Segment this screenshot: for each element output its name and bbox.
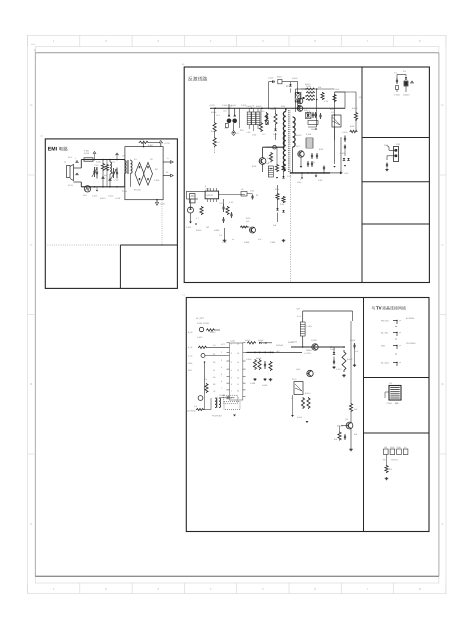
svg-text:R-7: R-7 [263, 133, 266, 136]
svg-text:PS1/PC817: PS1/PC817 [212, 415, 222, 418]
svg-text:TV: TV [376, 306, 382, 311]
svg-text:ZD2: ZD2 [240, 129, 244, 132]
svg-text:A: A [30, 522, 32, 526]
svg-text:4: 4 [210, 39, 212, 43]
svg-text:14: 14 [237, 361, 239, 364]
svg-text:反激线路: 反激线路 [188, 76, 207, 83]
svg-text:7S: 7S [213, 390, 216, 393]
svg-text:1K: 1K [291, 397, 294, 400]
svg-text:L-27: L-27 [268, 161, 272, 164]
svg-text:L-001: L-001 [307, 325, 313, 328]
svg-text:C-021: C-021 [186, 226, 191, 229]
svg-text:AC-L: AC-L [68, 156, 73, 159]
svg-text:GND: GND [397, 446, 402, 449]
svg-text:BL_ADJ: BL_ADJ [381, 362, 389, 365]
svg-text:3R: 3R [213, 361, 216, 364]
svg-text:C-018: C-018 [154, 179, 159, 182]
svg-text:16: 16 [237, 343, 239, 346]
svg-text:R-2: R-2 [217, 141, 221, 144]
svg-text:L-05: L-05 [247, 131, 251, 134]
svg-text:C-408: C-408 [250, 382, 255, 385]
svg-text:R-017: R-017 [330, 108, 335, 111]
svg-text:R-23: R-23 [246, 217, 250, 220]
svg-text:1N4148: 1N4148 [276, 344, 283, 347]
svg-text:BL_ON: BL_ON [337, 425, 344, 428]
svg-text:1: 1 [53, 39, 55, 43]
svg-text:13: 13 [237, 369, 239, 372]
svg-text:R-430: R-430 [210, 331, 215, 334]
svg-text:C-22: C-22 [229, 201, 233, 204]
svg-text:8: 8 [419, 587, 421, 591]
svg-text:R-4: R-4 [204, 378, 208, 381]
svg-text:D-031 R-033: D-031 R-033 [197, 322, 210, 325]
svg-text:-170V: -170V [160, 203, 166, 206]
svg-text:N+: N+ [166, 171, 169, 174]
svg-text:(+12V): (+12V) [305, 352, 312, 355]
svg-text:D-8: D-8 [273, 224, 276, 227]
svg-text:R-013: R-013 [305, 83, 310, 86]
svg-text:D-011: D-011 [270, 108, 275, 111]
svg-text:0.1u: 0.1u [112, 161, 116, 164]
svg-text:6: 6 [314, 39, 316, 43]
svg-text:电路: 电路 [59, 147, 69, 152]
svg-text:R-5: R-5 [354, 433, 357, 436]
svg-text:1M: 1M [104, 174, 107, 177]
svg-text:R-409: R-409 [262, 384, 267, 387]
svg-text:X2: X2 [241, 188, 243, 191]
svg-text:FUSE: FUSE [84, 152, 90, 155]
svg-text:R-414: R-414 [305, 392, 311, 395]
svg-text:R-28: R-28 [350, 125, 354, 128]
svg-text:GND: GND [390, 446, 395, 449]
svg-text:D-2: D-2 [224, 110, 227, 113]
svg-text:4: 4 [221, 366, 223, 369]
svg-text:C-31: C-31 [311, 161, 315, 164]
svg-text:2: 2 [105, 587, 107, 591]
svg-text:1N: 1N [213, 344, 216, 347]
svg-text:5V-PWM: 5V-PWM [406, 317, 414, 320]
svg-text:Z1: Z1 [237, 132, 239, 135]
svg-text:+12V: +12V [296, 308, 301, 311]
svg-text:R-009: R-009 [256, 105, 261, 108]
svg-text:B: B [30, 382, 32, 386]
svg-text:47K: 47K [258, 238, 262, 241]
svg-text:与: 与 [372, 306, 376, 311]
svg-text:AC_DET: AC_DET [196, 317, 204, 320]
svg-text:0.22u: 0.22u [96, 161, 101, 164]
svg-text:5D: 5D [213, 376, 216, 379]
svg-text:C-010: C-010 [259, 110, 264, 113]
svg-text:CX2: CX2 [115, 179, 120, 182]
svg-text:U-401: U-401 [230, 340, 235, 343]
svg-text:R-1: R-1 [389, 468, 392, 471]
svg-text:R-407: R-407 [288, 341, 293, 344]
svg-text:Z-016: Z-016 [306, 133, 311, 136]
svg-text:1: 1 [231, 343, 232, 346]
svg-text:S8050: S8050 [311, 128, 317, 131]
svg-text:1n: 1n [232, 238, 234, 241]
svg-text:D: D [30, 103, 33, 107]
svg-text:RS-205: RS-205 [134, 189, 141, 192]
svg-text:22: 22 [256, 194, 258, 197]
svg-text:C: C [30, 243, 33, 247]
svg-text:R-412: R-412 [347, 358, 352, 361]
svg-text:R-017: R-017 [277, 76, 282, 79]
svg-text:+5V+5V: +5V+5V [391, 459, 399, 462]
svg-text:R-028: R-028 [244, 241, 249, 244]
svg-text:COMP: COMP [219, 394, 226, 397]
svg-text:Q-3: Q-3 [296, 145, 300, 148]
svg-text:LF1: LF1 [122, 155, 126, 158]
svg-text:+5V: +5V [383, 459, 387, 462]
svg-text:1: 1 [53, 587, 55, 591]
svg-text:C-016: C-016 [268, 77, 273, 80]
svg-text:XXXX: XXXX [31, 43, 36, 46]
svg-text:L-015: L-015 [115, 197, 120, 200]
svg-text:C-30: C-30 [318, 179, 322, 182]
svg-text:C-413: C-413 [336, 368, 341, 371]
svg-text:Q-012: Q-012 [295, 94, 300, 97]
svg-text:SW: SW [384, 144, 387, 147]
svg-text:C-2: C-2 [219, 234, 222, 237]
svg-text:1: 1 [35, 56, 37, 59]
svg-text:R-018: R-018 [352, 107, 357, 110]
svg-text:104: 104 [318, 86, 322, 89]
svg-text:A1: A1 [41, 135, 44, 138]
svg-text:0: 0 [34, 49, 36, 53]
svg-text:7: 7 [367, 587, 369, 591]
svg-text:7: 7 [367, 39, 369, 43]
svg-text:5: 5 [262, 39, 264, 43]
svg-text:L-06: L-06 [252, 134, 256, 137]
svg-text:A: A [441, 522, 443, 526]
svg-text:C-1: C-1 [394, 72, 398, 75]
svg-text:15: 15 [237, 352, 239, 355]
svg-text:Q-41: Q-41 [296, 368, 300, 371]
svg-text:D-404: D-404 [258, 339, 264, 342]
svg-text:R-026: R-026 [214, 229, 219, 232]
svg-text:P: P [400, 362, 402, 365]
svg-text:L+: L+ [167, 157, 170, 160]
svg-text:4.7u: 4.7u [297, 315, 301, 318]
svg-text:R-24: R-24 [275, 188, 280, 191]
svg-text:C-003: C-003 [394, 94, 400, 97]
svg-text:C1: C1 [183, 294, 186, 297]
svg-text:11: 11 [237, 383, 239, 386]
svg-text:D-29: D-29 [273, 133, 277, 136]
svg-text:CX1: CX1 [95, 164, 100, 167]
svg-text:D-411: D-411 [330, 348, 335, 351]
svg-text:R-406: R-406 [256, 357, 261, 360]
svg-text:PW_ON: PW_ON [381, 320, 389, 323]
svg-text:6: 6 [221, 380, 222, 383]
svg-text:C-012: C-012 [92, 195, 97, 198]
svg-text:Q-402: Q-402 [311, 339, 318, 342]
svg-text:RS: RS [155, 168, 158, 171]
svg-text:103: 103 [206, 226, 209, 229]
svg-text:AC-N: AC-N [68, 184, 73, 187]
svg-text:2: 2 [105, 39, 107, 43]
svg-text:10K: 10K [354, 408, 358, 411]
svg-text:C-006: C-006 [222, 104, 227, 107]
svg-text:P: P [400, 320, 402, 323]
svg-text:6: 6 [314, 587, 316, 591]
svg-text:10: 10 [237, 390, 239, 393]
svg-text:VCC: VCC [221, 343, 226, 346]
svg-text:4: 4 [210, 587, 212, 591]
svg-text:C-019: C-019 [342, 131, 347, 134]
svg-text:4F: 4F [213, 369, 216, 372]
svg-text:R-005: R-005 [211, 130, 216, 133]
svg-text:R-025: R-025 [196, 229, 201, 232]
svg-text:JP1: JP1 [389, 382, 392, 385]
svg-text:PW: PW [226, 398, 229, 401]
svg-text:2: 2 [231, 352, 232, 355]
svg-text:D1: D1 [134, 158, 137, 161]
svg-text:C: C [441, 243, 444, 247]
svg-text:B_IN: B_IN [188, 331, 193, 334]
svg-text:R-015: R-015 [296, 134, 301, 137]
svg-text:U-02: U-02 [335, 88, 339, 91]
svg-text:C-008: C-008 [246, 105, 251, 108]
svg-text:R-004: R-004 [211, 111, 217, 114]
svg-text:5: 5 [231, 377, 232, 380]
svg-text:3: 3 [231, 361, 232, 364]
svg-text:6: 6 [231, 383, 232, 386]
svg-text:5: 5 [221, 373, 222, 376]
svg-text:D-020: D-020 [340, 152, 345, 155]
svg-text:PC-1: PC-1 [292, 378, 296, 381]
svg-text:DIM: DIM [381, 345, 385, 348]
svg-text:S8550: S8550 [306, 349, 312, 352]
svg-text:5: 5 [262, 587, 264, 591]
svg-text:8: 8 [419, 39, 421, 43]
svg-text:C-4: C-4 [355, 350, 359, 353]
svg-text:470u: 470u [297, 181, 301, 184]
svg-text:R-002: R-002 [139, 138, 145, 141]
svg-text:C-21: C-21 [219, 202, 223, 205]
svg-text:GND: GND [188, 362, 193, 365]
svg-text:C-405: C-405 [246, 358, 251, 361]
svg-text:D-25: D-25 [280, 203, 284, 206]
svg-text:12V-PWM: 12V-PWM [187, 410, 196, 413]
svg-text:9: 9 [238, 397, 239, 400]
svg-text:+170V: +170V [164, 142, 171, 145]
svg-text:EE25: EE25 [286, 85, 291, 88]
svg-text:3: 3 [157, 587, 159, 591]
svg-text:B1: B1 [182, 63, 185, 66]
svg-text:4: 4 [231, 369, 232, 372]
svg-text:5V: 5V [404, 446, 407, 449]
svg-text:D2: D2 [150, 158, 153, 161]
svg-text:R-32: R-32 [319, 148, 323, 151]
svg-text:R-403: R-403 [245, 339, 250, 342]
svg-text:D-018: D-018 [292, 77, 297, 80]
svg-text:7: 7 [221, 387, 222, 390]
svg-text:C-01: C-01 [250, 190, 254, 193]
svg-text:T-001: T-001 [281, 105, 286, 108]
svg-text:6G: 6G [213, 383, 216, 386]
svg-text:C-029: C-029 [270, 241, 275, 244]
svg-text:8: 8 [205, 185, 206, 188]
svg-text:C-2: C-2 [225, 127, 228, 130]
svg-text:22K: 22K [359, 96, 363, 99]
svg-text:W2: W2 [293, 122, 296, 125]
svg-text:R-1: R-1 [217, 114, 221, 117]
svg-text:EMI: EMI [48, 147, 58, 153]
svg-text:CN2: CN2 [396, 143, 401, 146]
svg-text:R-013: R-013 [100, 197, 105, 200]
svg-text:D-1: D-1 [403, 70, 407, 73]
svg-text:T2: T2 [252, 105, 254, 108]
svg-text:D: D [441, 103, 444, 107]
svg-text:12: 12 [237, 377, 239, 380]
svg-text:C-4: C-4 [194, 405, 198, 408]
svg-text:12V-PWM: 12V-PWM [406, 342, 416, 345]
svg-text:4.7K: 4.7K [324, 100, 329, 103]
svg-text:C-014: C-014 [307, 107, 313, 110]
svg-text:V_IN: V_IN [188, 355, 193, 358]
svg-text:4.7: 4.7 [196, 217, 199, 220]
svg-text:T-000: T-000 [122, 190, 127, 193]
svg-text:12V: 12V [384, 446, 388, 449]
svg-text:R-5: R-5 [334, 438, 337, 441]
svg-text:3: 3 [221, 359, 222, 362]
svg-text:1N4007: 1N4007 [403, 94, 410, 97]
svg-text:NCP12: NCP12 [207, 194, 213, 197]
svg-text:+170V: +170V [209, 104, 216, 107]
svg-text:K_IN: K_IN [188, 346, 193, 349]
svg-text:470u: 470u [228, 105, 232, 108]
svg-text:液晶连接网络: 液晶连接网络 [382, 306, 406, 311]
svg-text:J1: J1 [64, 161, 67, 164]
svg-text:ADJ: ADJ [188, 369, 192, 372]
svg-text:R-415: R-415 [297, 416, 302, 419]
svg-text:2: 2 [221, 351, 222, 354]
svg-text:R-26: R-26 [252, 165, 256, 168]
svg-text:C-032: C-032 [197, 336, 202, 339]
svg-text:B: B [441, 382, 443, 386]
svg-text:Q-2: Q-2 [246, 220, 249, 223]
svg-text:输出: 输出 [395, 402, 399, 405]
svg-text:L: L [75, 157, 76, 160]
svg-text:+12V: +12V [344, 172, 349, 175]
svg-text:C-014: C-014 [108, 195, 114, 198]
svg-text:6.8M: 6.8M [148, 144, 153, 147]
svg-text:Q-4: Q-4 [345, 418, 349, 421]
svg-text:C-30: C-30 [287, 175, 291, 178]
svg-text:CON5: CON5 [387, 402, 392, 405]
svg-text:P: P [400, 332, 402, 335]
svg-text:P: P [400, 345, 402, 348]
svg-text:3: 3 [157, 39, 159, 43]
svg-text:7: 7 [231, 390, 232, 393]
svg-text:RV1: RV1 [83, 194, 88, 197]
svg-text:BL_ON: BL_ON [381, 332, 388, 335]
svg-text:C-013: C-013 [241, 104, 246, 107]
